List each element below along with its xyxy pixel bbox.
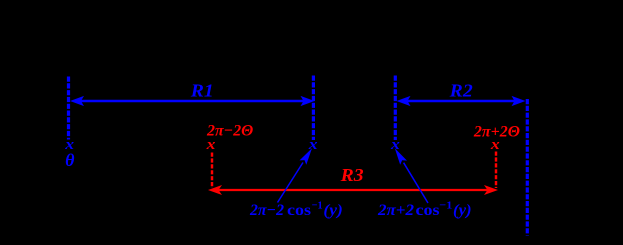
svg-text:2π−2Θ: 2π−2Θ <box>206 123 253 140</box>
svg-text:cos: cos <box>416 202 440 219</box>
svg-text:R2: R2 <box>449 81 473 101</box>
svg-text:R3: R3 <box>340 165 364 185</box>
svg-text:x: x <box>390 137 401 153</box>
svg-text:(y): (y) <box>323 202 342 219</box>
svg-text:(y): (y) <box>453 202 472 219</box>
svg-text:x: x <box>308 137 319 153</box>
svg-text:cos: cos <box>287 202 311 219</box>
svg-text:θ: θ <box>65 150 75 170</box>
svg-text:R1: R1 <box>190 81 214 101</box>
svg-text:2π+2: 2π+2 <box>377 202 414 219</box>
svg-text:2π+2Θ: 2π+2Θ <box>473 124 520 141</box>
svg-text:−1: −1 <box>439 200 452 212</box>
svg-text:−1: −1 <box>312 200 323 212</box>
svg-text:2π−2: 2π−2 <box>249 202 284 219</box>
